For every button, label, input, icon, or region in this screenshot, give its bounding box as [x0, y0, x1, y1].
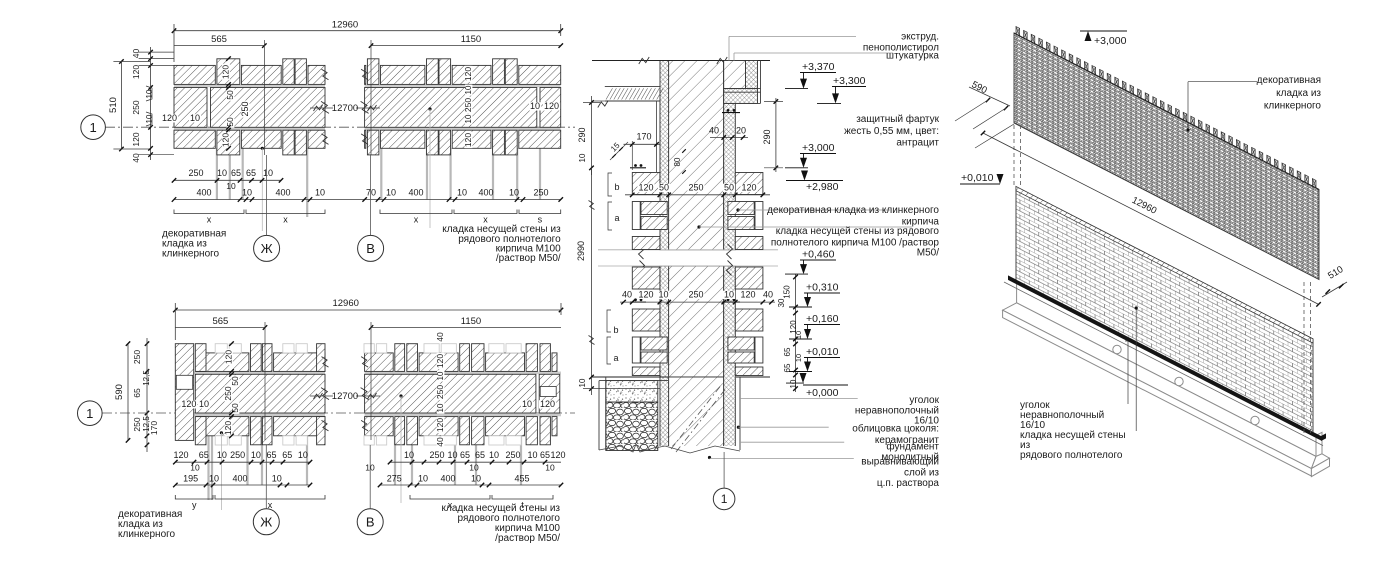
svg-text:10: 10 [190, 113, 200, 123]
svg-text:250: 250 [429, 450, 444, 460]
svg-text:защитный фартук: защитный фартук [856, 113, 939, 125]
svg-text:290: 290 [762, 129, 772, 144]
svg-text:65: 65 [783, 363, 792, 372]
svg-text:клинкерного: клинкерного [118, 529, 176, 540]
svg-text:жесть 0,55 мм, цвет:: жесть 0,55 мм, цвет: [844, 126, 939, 137]
svg-text:120: 120 [162, 113, 177, 123]
svg-text:250: 250 [505, 450, 520, 460]
svg-text:10: 10 [509, 188, 519, 198]
svg-text:65: 65 [231, 168, 241, 178]
svg-text:565: 565 [211, 34, 227, 45]
svg-text:120: 120 [740, 290, 755, 300]
svg-text:10: 10 [217, 168, 227, 178]
svg-text:400: 400 [440, 474, 455, 484]
svg-text:65: 65 [540, 450, 550, 460]
svg-text:1: 1 [89, 120, 96, 135]
svg-text:10: 10 [242, 188, 252, 198]
svg-text:10: 10 [251, 450, 261, 460]
svg-text:b: b [614, 182, 619, 192]
svg-text:170: 170 [636, 132, 651, 142]
svg-text:120: 120 [224, 350, 234, 364]
svg-text:декоративная кладка из клинкер: декоративная кладка из клинкерного [767, 205, 939, 216]
svg-text:10: 10 [469, 463, 479, 473]
svg-text:250: 250 [132, 417, 142, 431]
svg-text:120: 120 [463, 133, 473, 147]
svg-text:клинкерного: клинкерного [1264, 101, 1322, 112]
svg-text:10: 10 [447, 450, 457, 460]
svg-text:10: 10 [545, 463, 555, 473]
svg-text:120: 120 [540, 399, 555, 409]
svg-text:250: 250 [463, 98, 473, 112]
svg-text:10: 10 [199, 399, 209, 409]
svg-text:10: 10 [436, 403, 445, 412]
svg-text:400: 400 [275, 188, 290, 198]
svg-text:кладка несущей стены из рядово: кладка несущей стены из рядового [776, 226, 940, 237]
svg-text:120: 120 [638, 290, 653, 300]
svg-text:/раствор М50/: /раствор М50/ [496, 253, 561, 264]
svg-text:510: 510 [108, 97, 119, 113]
svg-text:65: 65 [282, 450, 292, 460]
svg-text:120: 120 [741, 183, 756, 193]
svg-text:275: 275 [387, 474, 402, 484]
svg-text:слой из: слой из [904, 467, 939, 478]
svg-text:x: x [283, 215, 288, 225]
svg-text:20: 20 [736, 126, 746, 136]
svg-text:+2,980: +2,980 [806, 181, 839, 193]
svg-text:антрацит: антрацит [896, 138, 939, 149]
svg-text:400: 400 [478, 188, 493, 198]
svg-text:12960: 12960 [332, 298, 358, 309]
svg-text:В: В [366, 515, 375, 530]
svg-text:10: 10 [724, 290, 734, 300]
svg-text:10: 10 [217, 450, 227, 460]
svg-text:40: 40 [131, 153, 141, 163]
svg-text:12700: 12700 [332, 391, 358, 402]
svg-text:1: 1 [721, 492, 728, 506]
svg-text:10: 10 [464, 114, 473, 123]
svg-text:40: 40 [435, 437, 445, 447]
svg-text:12960: 12960 [332, 20, 358, 31]
svg-text:65: 65 [475, 450, 485, 460]
svg-text:250: 250 [240, 101, 250, 116]
svg-text:250: 250 [188, 168, 203, 178]
svg-text:b: b [613, 325, 618, 335]
svg-text:10: 10 [418, 474, 428, 484]
svg-text:полнотелого кирпича М100 /раст: полнотелого кирпича М100 /раствор [771, 237, 940, 248]
svg-text:+3,370: +3,370 [802, 61, 835, 73]
svg-text:10: 10 [145, 114, 154, 123]
svg-text:10: 10 [209, 474, 219, 484]
svg-text:+0,160: +0,160 [806, 313, 839, 325]
svg-text:250: 250 [230, 450, 245, 460]
svg-text:10: 10 [794, 331, 803, 339]
svg-text:65: 65 [783, 347, 792, 356]
svg-text:120: 120 [638, 183, 653, 193]
svg-text:80: 80 [673, 157, 682, 166]
svg-text:120: 120 [221, 65, 231, 79]
svg-text:облицовка цоколя:: облицовка цоколя: [852, 422, 939, 434]
svg-text:1150: 1150 [461, 316, 481, 327]
svg-text:10: 10 [298, 450, 308, 460]
svg-text:10: 10 [404, 450, 414, 460]
svg-text:2990: 2990 [576, 241, 586, 261]
svg-text:120: 120 [544, 101, 559, 111]
svg-text:x: x [483, 215, 488, 225]
svg-text:10: 10 [578, 378, 587, 387]
svg-text:+3,000: +3,000 [1094, 35, 1127, 47]
svg-text:клинкерного: клинкерного [162, 248, 220, 259]
svg-text:120: 120 [131, 132, 141, 146]
svg-text:120: 120 [173, 450, 188, 460]
svg-text:+0,010: +0,010 [806, 346, 839, 358]
svg-text:290: 290 [577, 127, 587, 142]
svg-text:10: 10 [522, 399, 532, 409]
svg-text:170: 170 [149, 421, 159, 435]
svg-text:250: 250 [132, 350, 142, 364]
svg-text:120: 120 [131, 65, 141, 79]
svg-text:150: 150 [783, 285, 792, 299]
svg-text:10: 10 [527, 450, 537, 460]
svg-text:12,5: 12,5 [142, 370, 151, 386]
svg-text:10: 10 [190, 463, 200, 473]
svg-text:455: 455 [514, 474, 529, 484]
svg-text:250: 250 [533, 188, 548, 198]
svg-text:кладка несущей стены: кладка несущей стены [1020, 430, 1126, 441]
svg-text:М50/: М50/ [917, 248, 939, 259]
svg-text:10: 10 [272, 474, 282, 484]
svg-text:экструд.: экструд. [901, 31, 939, 42]
svg-text:1150: 1150 [461, 34, 481, 45]
svg-text:выравнивающий: выравнивающий [861, 456, 939, 467]
svg-text:250: 250 [435, 385, 445, 399]
svg-text:120: 120 [463, 67, 473, 81]
svg-text:50: 50 [225, 90, 235, 100]
svg-text:10: 10 [530, 101, 540, 111]
svg-text:штукатурка: штукатурка [886, 51, 939, 62]
svg-text:10: 10 [471, 474, 481, 484]
svg-text:590: 590 [114, 384, 125, 400]
svg-text:10: 10 [145, 89, 154, 98]
svg-text:120: 120 [550, 450, 565, 460]
svg-text:уголок: уголок [909, 395, 939, 406]
svg-text:10: 10 [794, 354, 803, 362]
svg-text:65: 65 [460, 450, 470, 460]
svg-text:рядового полнотелого: рядового полнотелого [1020, 450, 1123, 461]
svg-text:+3,300: +3,300 [833, 75, 866, 87]
svg-text:/раствор М50/: /раствор М50/ [495, 533, 560, 544]
svg-text:10: 10 [578, 153, 587, 162]
svg-text:400: 400 [196, 188, 211, 198]
svg-text:12700: 12700 [332, 103, 358, 114]
svg-text:50: 50 [724, 183, 734, 193]
svg-text:x: x [207, 215, 212, 225]
svg-text:40: 40 [622, 290, 632, 300]
svg-text:65: 65 [199, 450, 209, 460]
svg-text:10: 10 [263, 168, 273, 178]
svg-text:120: 120 [435, 354, 445, 368]
svg-text:10: 10 [386, 188, 396, 198]
svg-text:10: 10 [489, 450, 499, 460]
svg-text:В: В [366, 241, 375, 256]
svg-text:фундамент: фундамент [886, 440, 939, 452]
svg-text:+0,460: +0,460 [802, 249, 835, 261]
svg-text:a: a [614, 213, 619, 223]
svg-text:+0,310: +0,310 [806, 282, 839, 294]
svg-text:декоративная: декоративная [1257, 75, 1321, 86]
svg-text:50: 50 [659, 183, 669, 193]
svg-text:+0,000: +0,000 [806, 387, 839, 399]
svg-text:+0,010: +0,010 [961, 172, 994, 184]
svg-text:40: 40 [763, 290, 773, 300]
svg-text:250: 250 [223, 386, 233, 400]
svg-text:y: y [192, 500, 197, 510]
svg-text:120: 120 [435, 418, 445, 432]
svg-text:120: 120 [223, 421, 233, 435]
svg-text:ц.п. раствора: ц.п. раствора [877, 478, 940, 489]
svg-text:+3,000: +3,000 [802, 142, 835, 154]
svg-text:30: 30 [777, 298, 786, 307]
svg-text:Ж: Ж [261, 241, 273, 256]
svg-text:40: 40 [131, 49, 141, 59]
svg-text:1: 1 [86, 406, 93, 421]
svg-text:Ж: Ж [260, 515, 272, 530]
svg-text:195: 195 [183, 474, 198, 484]
svg-text:120: 120 [221, 133, 231, 147]
svg-text:250: 250 [688, 183, 703, 193]
svg-text:400: 400 [232, 474, 247, 484]
svg-text:a: a [613, 353, 618, 363]
svg-text:565: 565 [212, 316, 228, 327]
svg-text:s: s [538, 215, 543, 225]
svg-text:10: 10 [226, 181, 236, 191]
svg-text:250: 250 [131, 100, 141, 114]
svg-text:65: 65 [266, 450, 276, 460]
svg-text:40: 40 [435, 332, 445, 342]
svg-text:120: 120 [181, 399, 196, 409]
svg-text:50: 50 [230, 376, 240, 386]
svg-text:65: 65 [246, 168, 256, 178]
svg-text:10: 10 [789, 379, 798, 388]
svg-text:10: 10 [457, 188, 467, 198]
svg-text:65: 65 [132, 388, 142, 398]
svg-text:250: 250 [688, 290, 703, 300]
svg-text:10: 10 [436, 371, 445, 380]
svg-text:10: 10 [315, 188, 325, 198]
svg-text:40: 40 [709, 126, 719, 136]
svg-text:50: 50 [230, 403, 240, 413]
svg-text:кладка из: кладка из [1276, 88, 1321, 99]
svg-text:400: 400 [408, 188, 423, 198]
svg-text:10: 10 [658, 290, 668, 300]
svg-text:10: 10 [464, 85, 473, 94]
svg-text:x: x [414, 215, 419, 225]
